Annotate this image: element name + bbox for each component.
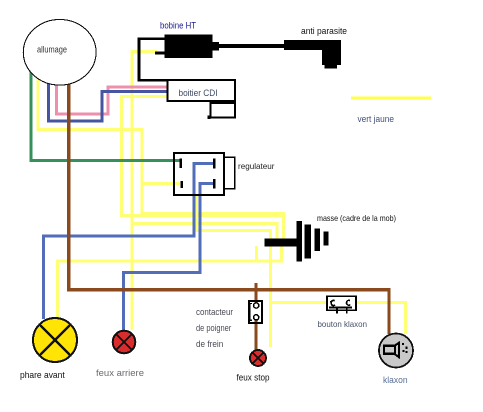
wire yellow branch to masse from bobine/feux-arriere vertical xyxy=(132,223,277,239)
svg-text:bouton klaxon: bouton klaxon xyxy=(318,319,368,329)
wire black HT lead xyxy=(219,44,284,48)
wire black bobine lower stub xyxy=(155,52,165,55)
feux stop lamp xyxy=(250,350,266,366)
regulateur terminal right-top xyxy=(213,158,216,168)
svg-text:de poigner: de poigner xyxy=(196,323,231,334)
contacteur inner bracket xyxy=(250,304,252,321)
bobine HT body xyxy=(165,35,213,59)
boitier CDI box xyxy=(168,80,236,101)
masse bar 4 xyxy=(323,231,328,245)
bouton legs xyxy=(337,307,347,313)
klaxon horn xyxy=(379,334,413,368)
wire yellow bobine/feux-arriere ground vertical xyxy=(132,51,157,330)
svg-text:de frein: de frein xyxy=(196,339,223,350)
masse bar 1 xyxy=(296,221,302,261)
regulateur right sub-box xyxy=(224,157,235,189)
CDI sub-box nub xyxy=(207,116,210,119)
bouton klaxon box xyxy=(327,296,356,310)
svg-text:contacteur: contacteur xyxy=(196,307,233,318)
wire yellow CDI ground: CDI left -> left -> down -> right -> down to masse xyxy=(122,97,284,239)
klaxon horn icon dots xyxy=(402,343,404,345)
regulateur terminal left-top xyxy=(180,159,183,168)
svg-text:klaxon: klaxon xyxy=(383,375,408,386)
masse bar 2 xyxy=(305,225,311,259)
wire pink allumage to CDI xyxy=(57,84,167,114)
wire blue regulateur to feux arriere xyxy=(124,183,214,331)
bouton contact right xyxy=(347,300,351,305)
wire yellow klaxon branch xyxy=(271,303,406,335)
bouton bar xyxy=(329,306,352,308)
contacteur box xyxy=(249,301,262,323)
svg-text:feux arriere: feux arriere xyxy=(96,368,144,378)
wire green allumage to regulateur xyxy=(31,72,179,161)
regulateur box xyxy=(174,153,224,195)
contacteur bottom contact xyxy=(254,315,259,320)
wire blue allumage to CDI xyxy=(49,81,167,121)
svg-text:boitier CDI: boitier CDI xyxy=(179,88,218,99)
svg-text:anti parasite: anti parasite xyxy=(301,26,347,36)
wire yellow allumage ground: allumage -> down -> right -> down past regulateur -> right -> down to masse xyxy=(38,77,284,239)
svg-text:feux stop: feux stop xyxy=(237,373,270,383)
wire yellow branch into regulateur lower-left terminal xyxy=(142,182,180,185)
masse bar 3 xyxy=(315,229,320,251)
wire yellow phare ground bus below masse xyxy=(58,246,282,318)
svg-text:phare avant: phare avant xyxy=(20,370,65,380)
CDI sub-box xyxy=(211,103,236,118)
svg-text:masse (cadre de la mob): masse (cadre de la mob) xyxy=(317,213,396,223)
wire blue regulateur to phare avant xyxy=(44,163,214,319)
regulateur terminal right-bottom xyxy=(213,179,216,189)
phare avant lamp xyxy=(33,318,77,362)
regulateur terminal left-bottom xyxy=(181,181,184,188)
svg-text:vert jaune: vert jaune xyxy=(358,114,395,124)
svg-text:bobine HT: bobine HT xyxy=(160,21,196,31)
allumage circle xyxy=(23,20,96,86)
wire yellow regulateur ground drop between blue wires xyxy=(197,194,271,347)
wire black bobine to CDI xyxy=(139,39,167,81)
contacteur top contact xyxy=(254,303,259,308)
wire brown branch to contacteur and feux stop xyxy=(254,283,257,350)
feux arriere lamp xyxy=(113,331,136,354)
masse ground lead xyxy=(265,238,298,246)
wire brown allumage to klaxon xyxy=(69,83,389,334)
anti parasite xyxy=(284,40,341,50)
bouton contact left xyxy=(331,300,335,305)
klaxon horn icon cone xyxy=(395,343,400,358)
wire yellow tie from bus up to masse lead xyxy=(255,246,258,261)
svg-text:allumage: allumage xyxy=(37,44,67,54)
svg-text:regulateur: regulateur xyxy=(238,161,275,171)
legend vert jaune line xyxy=(351,96,431,99)
klaxon horn icon box xyxy=(384,346,395,354)
